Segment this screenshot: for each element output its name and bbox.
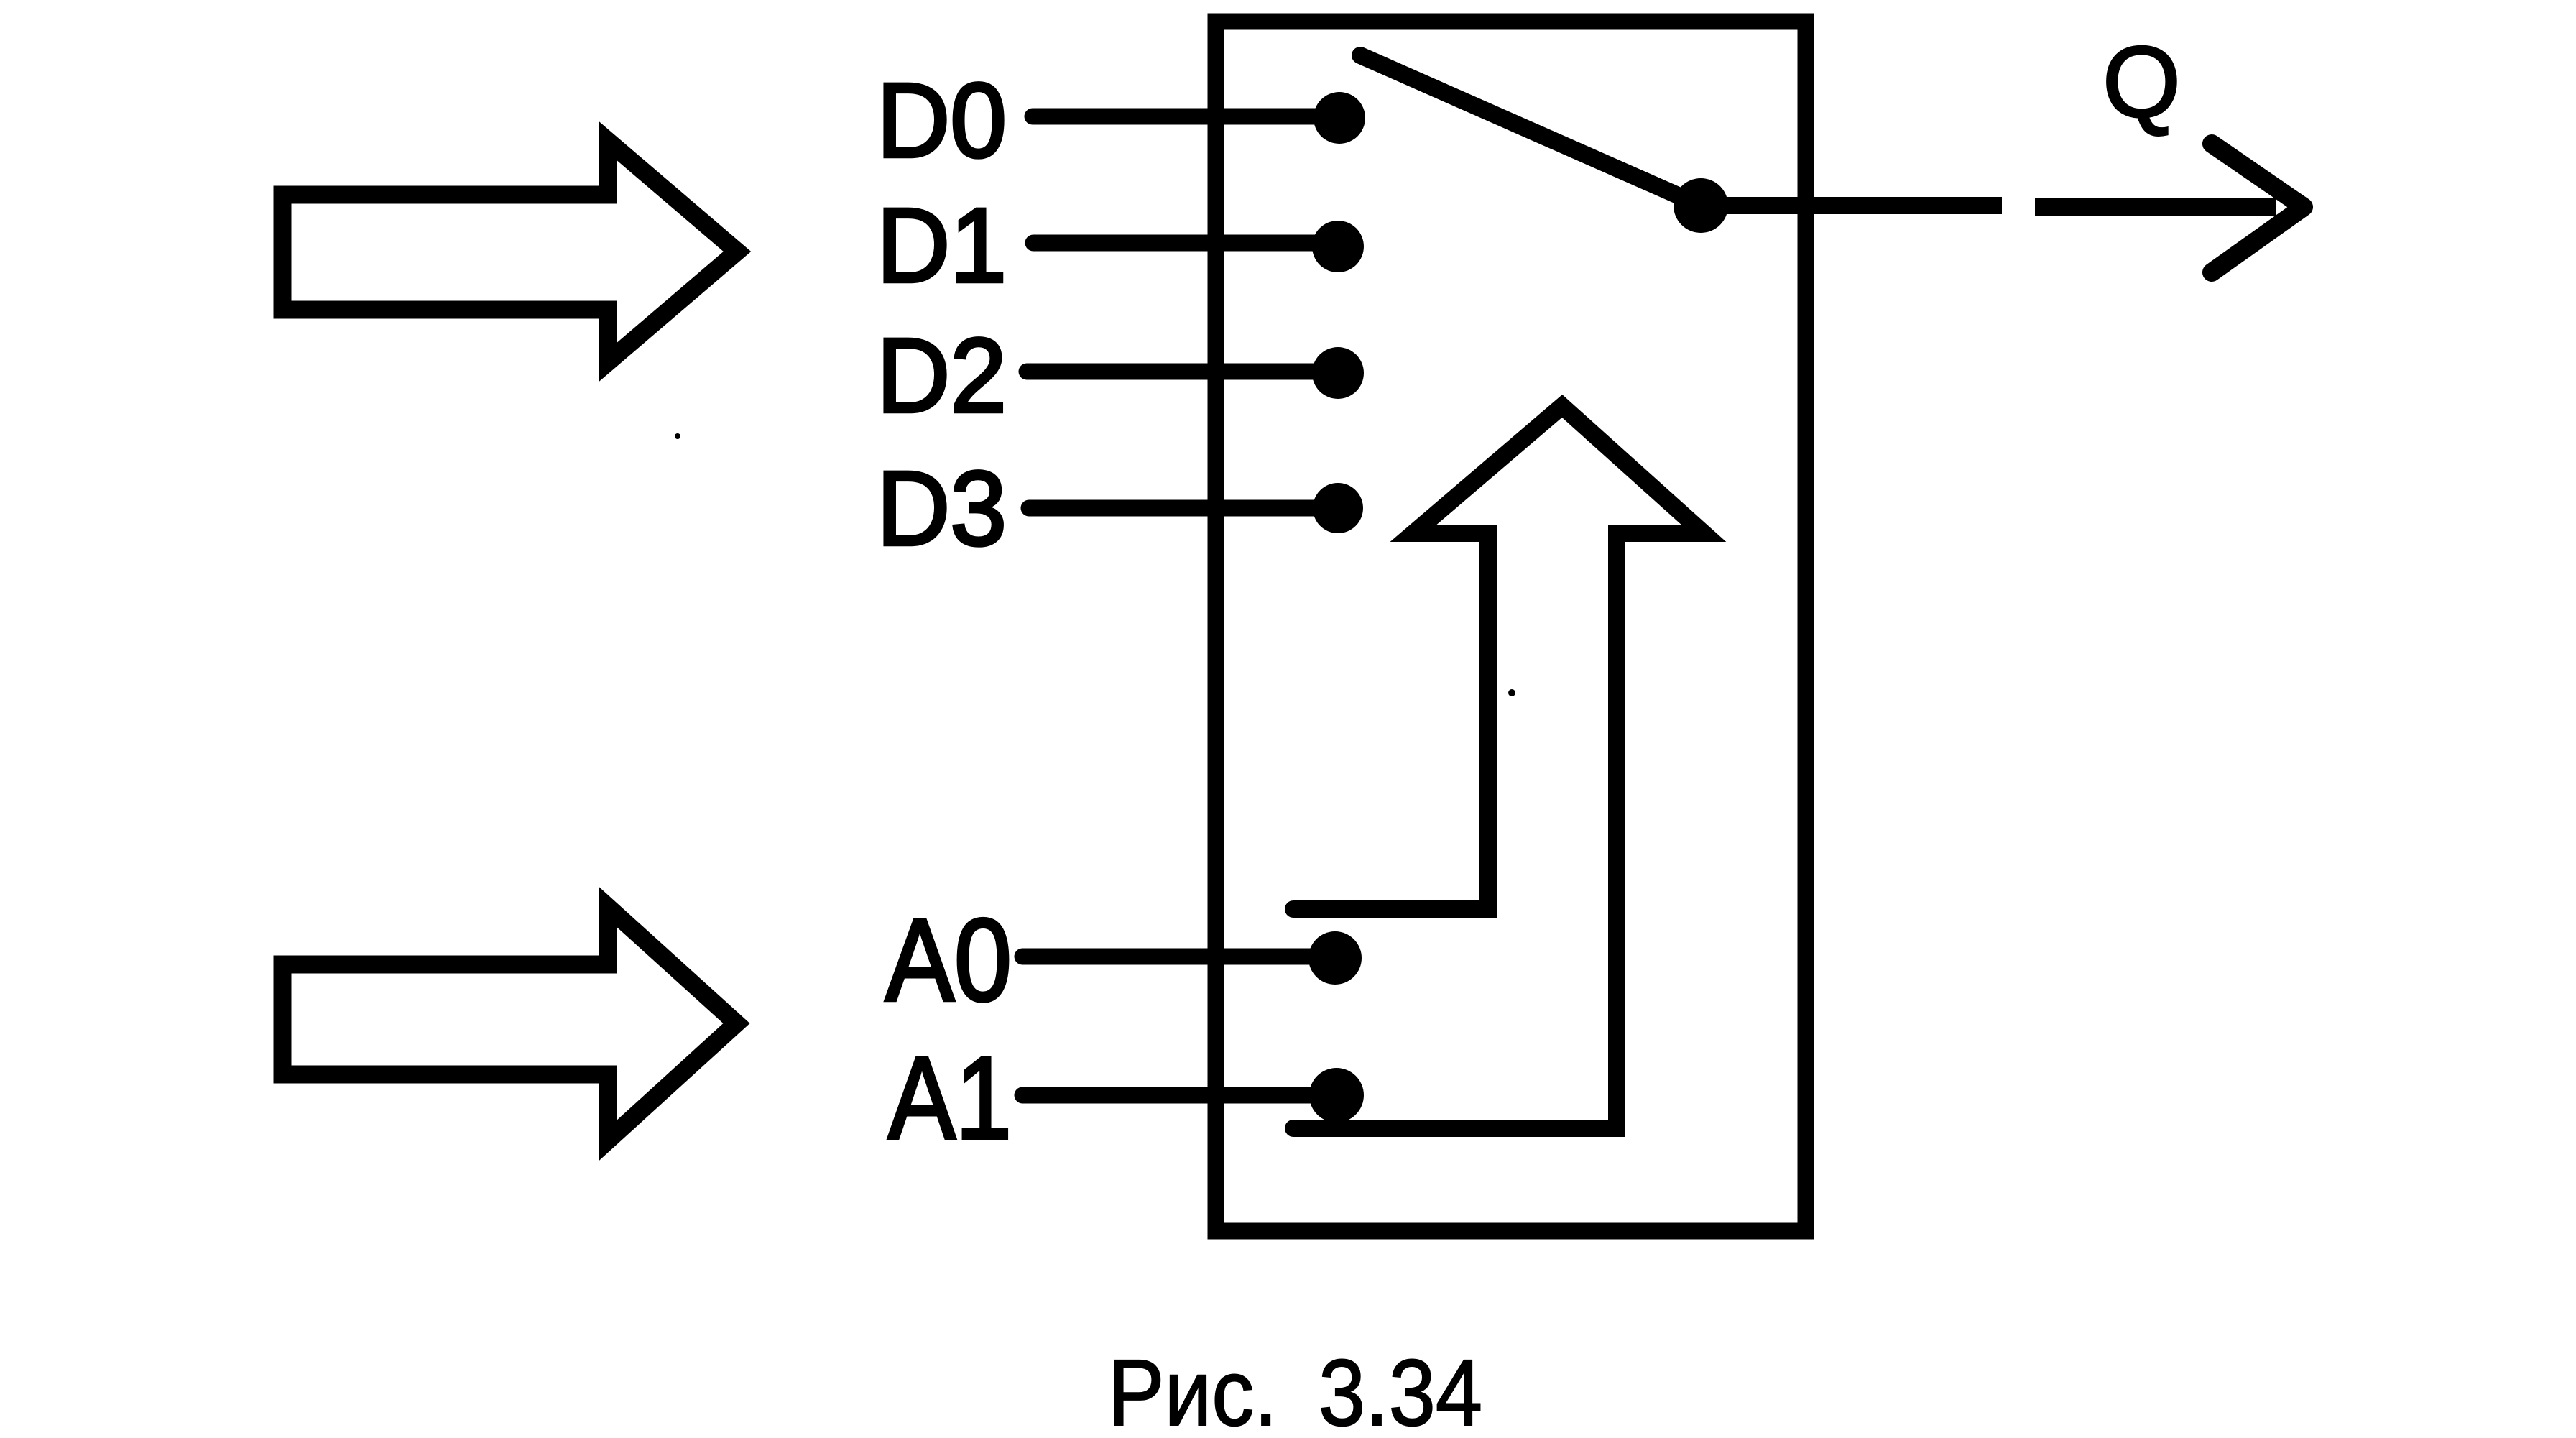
svg-text:D1: D1 (877, 187, 1007, 305)
svg-text:Q: Q (2102, 25, 2181, 138)
svg-text:A0: A0 (885, 894, 1012, 1026)
svg-text:D0: D0 (877, 62, 1007, 180)
svg-text:Рис.: Рис. (1108, 1340, 1278, 1438)
svg-text:D3: D3 (877, 450, 1007, 568)
svg-text:A1: A1 (888, 1032, 1012, 1163)
svg-text:D2: D2 (877, 317, 1007, 435)
svg-text:3.34: 3.34 (1319, 1340, 1482, 1438)
